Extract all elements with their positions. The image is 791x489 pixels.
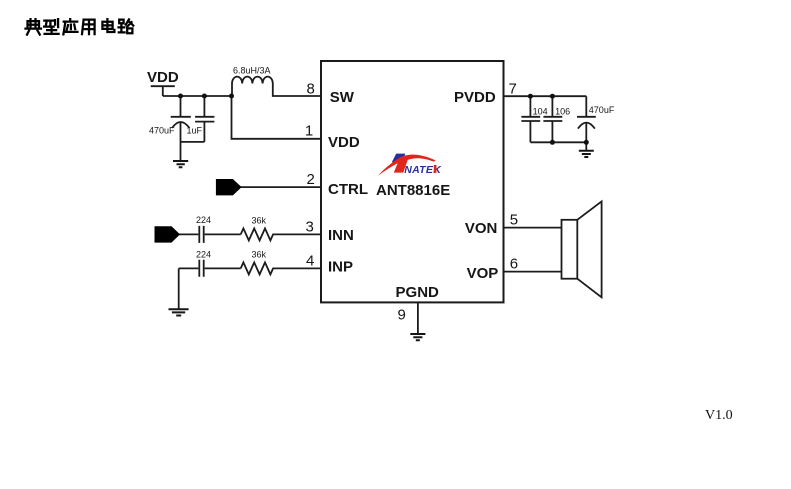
svg-text:VDD: VDD bbox=[328, 134, 360, 151]
svg-text:VON: VON bbox=[465, 220, 498, 237]
svg-text:8: 8 bbox=[306, 81, 314, 98]
svg-text:1: 1 bbox=[305, 123, 313, 140]
svg-text:1uF: 1uF bbox=[187, 125, 203, 135]
svg-text:VOP: VOP bbox=[467, 265, 499, 282]
svg-text:4: 4 bbox=[306, 252, 314, 269]
svg-text:5: 5 bbox=[510, 212, 518, 229]
svg-text:470uF: 470uF bbox=[589, 105, 615, 115]
svg-text:7: 7 bbox=[509, 81, 517, 98]
svg-text:224: 224 bbox=[196, 249, 211, 259]
svg-text:SW: SW bbox=[330, 89, 355, 106]
svg-text:9: 9 bbox=[398, 307, 406, 324]
svg-text:224: 224 bbox=[196, 215, 211, 225]
svg-text:470uF: 470uF bbox=[149, 126, 175, 136]
svg-text:V1.0: V1.0 bbox=[705, 408, 733, 423]
svg-text:106: 106 bbox=[555, 106, 570, 116]
svg-text:3: 3 bbox=[305, 218, 313, 235]
svg-text:6: 6 bbox=[510, 256, 518, 273]
svg-text:PGND: PGND bbox=[396, 284, 440, 301]
svg-text:ANT8816E: ANT8816E bbox=[376, 182, 450, 199]
svg-text:PVDD: PVDD bbox=[454, 89, 496, 106]
svg-text:INN: INN bbox=[328, 227, 354, 244]
svg-text:INP: INP bbox=[328, 258, 353, 275]
svg-text:NATEK: NATEK bbox=[404, 164, 442, 176]
svg-text:CTRL: CTRL bbox=[328, 181, 368, 198]
svg-text:6.8uH/3A: 6.8uH/3A bbox=[233, 65, 271, 75]
svg-text:36k: 36k bbox=[251, 216, 266, 226]
svg-text:104: 104 bbox=[533, 106, 548, 116]
svg-text:36k: 36k bbox=[251, 249, 266, 259]
svg-text:VDD: VDD bbox=[147, 69, 179, 86]
svg-text:2: 2 bbox=[306, 171, 314, 188]
